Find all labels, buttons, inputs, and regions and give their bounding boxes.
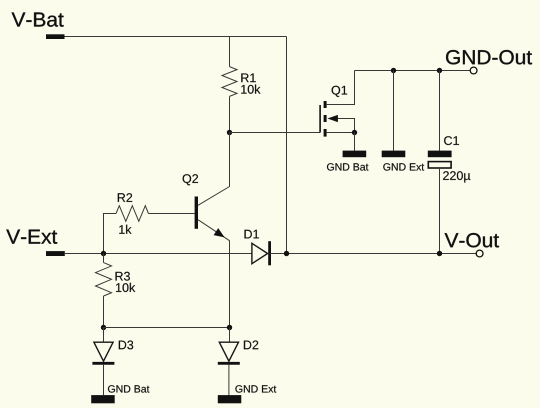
ground GND Ext (bottom) — [218, 395, 242, 403]
wire R3 bottom lead — [103, 296, 105, 328]
wire GND Ext drop — [393, 71, 395, 151]
wire R2 to Q2 base — [149, 213, 195, 215]
transistor Q1 source bar — [324, 129, 327, 137]
wire V-Bat to V-Out drop — [286, 37, 288, 254]
wire Q2 emitter — [198, 220, 230, 328]
wire D3 top lead — [103, 328, 105, 343]
label C1 — [444, 136, 459, 145]
junction Q1 source/bulk — [352, 130, 357, 135]
junction C1 top — [437, 68, 442, 73]
capacitor C1 negative plate — [428, 162, 451, 168]
junction GND Ext drop — [391, 68, 396, 73]
wire Q2 collector — [198, 133, 230, 206]
ground GND Ext (top) — [382, 151, 406, 158]
wire Q1 bulk to source — [338, 119, 355, 133]
junction V-Bat drop / V-Out rail — [284, 251, 289, 256]
junction R3/D3 node — [101, 325, 106, 330]
transistor Q1 bulk arrow — [327, 115, 338, 122]
wire R2 left lead — [104, 214, 117, 254]
ground GND Bat (bottom) — [91, 395, 115, 403]
transistor Q1 drain bar — [324, 101, 327, 108]
terminal GND-Out — [470, 67, 477, 74]
wire Q1 drain to GND-Out rail — [327, 71, 355, 105]
wire C1 top lead — [439, 71, 441, 151]
label GND Ext (bottom) — [235, 385, 276, 392]
junction R1/gate/collector node — [227, 130, 232, 135]
value 10k (R1) — [241, 85, 260, 94]
wire V-Bat horizontal — [65, 36, 287, 38]
diode D2 — [219, 342, 238, 361]
wire Q1 source — [327, 132, 355, 134]
diode D1 — [252, 243, 268, 263]
junction V-Ext/R2/R3 node — [101, 251, 106, 256]
label R2 — [118, 193, 132, 202]
wire D3 to ground — [103, 365, 105, 396]
label D2 — [244, 341, 258, 350]
wire C1 bottom lead — [439, 168, 441, 254]
wire D2 to ground — [228, 365, 230, 396]
terminal V-Ext — [46, 251, 65, 256]
wire D2 top lead — [229, 328, 231, 343]
wire GND-Out rail — [355, 70, 471, 72]
transistor Q1 gate line — [319, 105, 321, 133]
wire R1 bottom to node — [229, 96, 231, 132]
wire R3 top lead — [103, 254, 105, 263]
resistor R3 — [96, 263, 112, 296]
label V-Out — [445, 233, 499, 247]
junction C1 bottom — [437, 251, 442, 256]
label Q2 — [183, 174, 198, 185]
capacitor C1 positive plate — [428, 151, 452, 158]
transistor Q1 bulk bar — [324, 115, 327, 122]
label R3 — [116, 272, 130, 281]
diode D1 cathode bar — [268, 241, 271, 265]
label GND Bat (bottom) — [108, 385, 149, 392]
transistor Q2 emitter arrow — [214, 228, 225, 237]
label D3 — [119, 341, 133, 350]
terminal V-Bat — [46, 34, 65, 39]
label GND Ext (top) — [383, 163, 424, 170]
terminal V-Out — [476, 250, 483, 257]
diode D3 — [94, 342, 113, 361]
wire Q1 source to GND Bat — [354, 133, 356, 151]
diode D3 cathode bar — [92, 362, 114, 365]
value 10k (R3) — [116, 283, 135, 292]
wire V-Out rail — [270, 253, 477, 255]
label Q1 — [332, 86, 348, 97]
wire V-Ext to D1 anode — [65, 253, 252, 255]
wire gate net to Q1 — [230, 132, 321, 134]
resistor R1 — [222, 67, 237, 97]
label D1 — [245, 230, 259, 239]
wire V-Bat to R1 top — [229, 37, 231, 67]
label R1 — [241, 74, 255, 83]
label V-Bat — [12, 13, 64, 27]
label V-Ext — [6, 230, 57, 244]
label GND-Out — [446, 50, 532, 64]
transistor Q2 base bar — [195, 197, 198, 229]
diode D2 cathode bar — [218, 362, 240, 365]
value 220u (C1) — [443, 171, 470, 182]
junction emitter/D2 node — [227, 325, 232, 330]
wire bottom rail — [104, 327, 230, 329]
value 1k (R2) — [119, 225, 131, 234]
label GND Bat (top) — [327, 163, 368, 170]
ground GND Bat (top) — [343, 151, 367, 158]
resistor R2 — [116, 206, 149, 222]
